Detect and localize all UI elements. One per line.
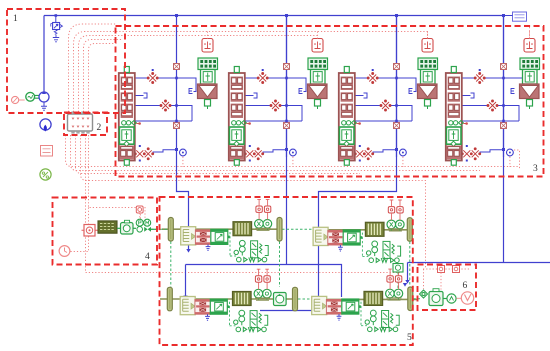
cooler fan pump	[137, 227, 143, 233]
hydraulic motor row2 col1	[274, 293, 287, 306]
pilot assembly 2	[299, 32, 328, 110]
axle quadrant 3	[180, 269, 271, 332]
pilot stub sensor 4	[529, 27, 531, 39]
axle shaft row1 left	[162, 228, 281, 230]
drive link right wheels	[409, 242, 411, 286]
brake release accumulator	[447, 294, 456, 303]
brake release orifice 2	[453, 266, 460, 273]
hydraulic pump	[39, 91, 49, 110]
brake release pilot drop 1	[423, 269, 425, 289]
drive link Q2 to mid pump	[397, 272, 399, 288]
axle quadrant 4	[312, 269, 403, 332]
svg-text:2: 2	[97, 123, 102, 133]
efficiency icon	[40, 169, 51, 180]
cooler circulation pump	[121, 220, 137, 234]
mid scavenge pump	[393, 264, 403, 273]
svg-text:6: 6	[463, 281, 468, 291]
pilot harness bottom line 3	[76, 135, 361, 174]
drive link left wheels	[170, 242, 172, 288]
drive link Q1 to Q2	[282, 228, 313, 230]
wheel row1 left	[168, 218, 173, 242]
gauge 4 pilot loop	[514, 150, 520, 169]
cooler outlet	[151, 228, 157, 230]
brake release supply line	[423, 268, 470, 270]
pilot assembly 4	[511, 32, 540, 110]
bus junction nodes	[175, 14, 178, 17]
brake release pilot drop 2	[440, 273, 442, 290]
valve group 4	[446, 16, 523, 168]
axle shaft row2 left	[160, 298, 296, 300]
oil volume indicator	[40, 119, 51, 132]
pilot line to timer gauge	[70, 208, 89, 252]
drive link Q4 to brake release	[413, 298, 420, 300]
wheel row2 left	[167, 287, 172, 311]
svg-text:5: 5	[407, 333, 412, 343]
fluid properties block	[504, 12, 527, 21]
pilot harness bottom line 2	[71, 135, 481, 171]
pilot harness top line 1	[74, 32, 428, 113]
boundary box 4 cooler unit	[53, 198, 158, 265]
electric motor	[26, 92, 39, 101]
valve group 1	[119, 16, 196, 168]
axle quadrant 2	[313, 200, 404, 263]
boundary box 2 controller	[64, 113, 107, 136]
drive link pump to axle	[151, 228, 168, 230]
boundary box 6 brake release	[418, 265, 477, 311]
svg-text:1: 1	[13, 14, 18, 24]
svg-text:3: 3	[533, 164, 538, 174]
brake release gauge	[456, 292, 473, 304]
pilot harness top stub 4	[89, 44, 119, 113]
cooler pump disc M	[144, 219, 151, 226]
boundary box 3 valve manifold	[116, 26, 544, 177]
run stats tag	[41, 146, 53, 157]
cooler thermo valve	[82, 225, 98, 237]
feed riser group1 lower run	[177, 157, 189, 250]
cooler fan	[144, 227, 151, 232]
wheel row2 mid	[293, 287, 298, 311]
relief valve	[51, 14, 63, 42]
pilot assembly 3	[409, 32, 438, 110]
drive link mid wheels	[279, 242, 281, 288]
pilot harness top stub 3	[84, 40, 124, 113]
pilot harness right return loop	[69, 24, 117, 112]
cooler pump disc P	[136, 219, 143, 226]
valve group 2	[229, 16, 306, 168]
svg-text:4: 4	[145, 252, 150, 262]
supply bus	[44, 15, 504, 17]
pilot line to cooler valve	[89, 135, 141, 219]
cooler loop gauge	[59, 246, 70, 257]
pump drive gauge	[12, 96, 25, 103]
pilot harness bottom line 1	[66, 135, 520, 167]
wheel row1 right	[407, 218, 412, 242]
axle shaft row1 right	[313, 229, 410, 231]
axle shaft row2 right	[316, 298, 417, 300]
pilot harness top line 2	[79, 36, 318, 113]
boundary box 5 axle assembly	[160, 197, 413, 345]
valve group 3	[339, 16, 416, 168]
brake release orifice 1	[438, 266, 445, 273]
brake release pump	[429, 289, 447, 306]
cooler bypass sensor	[136, 206, 145, 219]
pilot harness line to brake release	[81, 135, 426, 269]
pump riser	[43, 16, 45, 93]
heat exchanger	[98, 221, 120, 233]
wheel row2 right	[408, 287, 413, 311]
brake release check	[420, 290, 428, 298]
axle quadrant 1	[181, 199, 272, 262]
feed riser group4 lower run	[408, 16, 550, 282]
feed riser group2 lower run	[186, 16, 342, 298]
pilot line axle row 2	[86, 135, 401, 273]
box 3 top edge dash-dot overlay	[116, 25, 544, 27]
boundary box 1 supply unit	[7, 9, 125, 113]
pilot assembly 1	[189, 32, 218, 110]
wheel row1 mid	[277, 218, 282, 242]
ECU connector block	[68, 112, 93, 133]
drive link Q3 to Q4	[298, 298, 316, 300]
feed riser group3 lower run	[260, 16, 397, 311]
